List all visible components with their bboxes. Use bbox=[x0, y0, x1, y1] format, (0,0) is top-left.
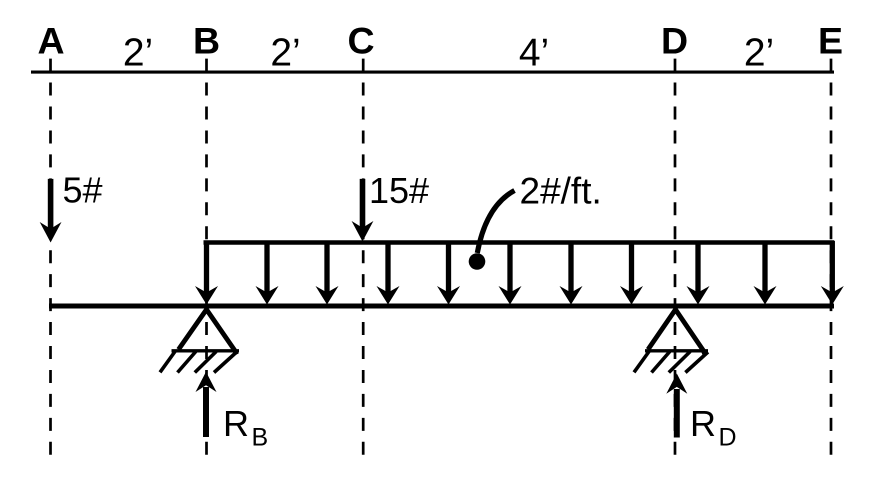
svg-text:4’: 4’ bbox=[519, 32, 549, 75]
distributed load arrow 1 bbox=[195, 241, 218, 305]
distributed load top line bbox=[204, 240, 835, 245]
svg-text:B: B bbox=[193, 20, 220, 62]
node C dashed construction line bbox=[362, 59, 365, 458]
distributed load leader dot bbox=[469, 253, 486, 270]
distributed load arrow 9 bbox=[687, 241, 710, 305]
svg-text:2’: 2’ bbox=[744, 32, 774, 75]
dimension line bbox=[31, 71, 834, 74]
svg-text:2’: 2’ bbox=[270, 32, 300, 75]
distributed load arrow 10 bbox=[754, 241, 777, 305]
node D dashed construction line bbox=[674, 59, 677, 458]
reaction arrow RD bbox=[666, 374, 687, 438]
distributed load arrow 11 bbox=[821, 241, 844, 305]
distributed load leader curve bbox=[477, 191, 514, 254]
svg-text:D: D bbox=[661, 20, 688, 62]
distributed load arrow 8 bbox=[620, 241, 643, 305]
distributed load arrow 2 bbox=[256, 241, 279, 305]
svg-text:C: C bbox=[347, 20, 374, 62]
svg-text:R: R bbox=[223, 403, 249, 444]
svg-text:B: B bbox=[252, 423, 269, 451]
reaction label RD bbox=[690, 403, 737, 451]
reaction arrow RB bbox=[196, 372, 217, 437]
distributed load arrow 7 bbox=[560, 241, 583, 305]
point load 5# arrow at A bbox=[40, 179, 62, 243]
support hatching at B bbox=[160, 352, 237, 373]
beam bbox=[49, 304, 834, 309]
node E dashed construction line bbox=[830, 59, 833, 458]
svg-text:15#: 15# bbox=[369, 170, 429, 211]
distributed load arrow 4 bbox=[377, 241, 400, 305]
svg-text:R: R bbox=[690, 403, 716, 444]
support triangle at D bbox=[645, 310, 708, 355]
svg-text:A: A bbox=[37, 20, 64, 62]
distributed load arrow 5 bbox=[437, 241, 460, 305]
point load 15# arrow at C bbox=[352, 179, 374, 242]
svg-text:D: D bbox=[719, 423, 737, 451]
svg-text:5#: 5# bbox=[63, 170, 103, 211]
node B dashed construction line bbox=[205, 59, 208, 458]
svg-text:2’: 2’ bbox=[123, 32, 153, 75]
support hatching at D bbox=[634, 352, 708, 373]
distributed load arrow 3 bbox=[316, 241, 339, 305]
distributed load arrow 6 bbox=[499, 241, 522, 305]
node A dashed construction line bbox=[49, 59, 52, 458]
reaction label RB bbox=[223, 403, 268, 451]
svg-text:E: E bbox=[818, 20, 843, 62]
svg-text:2#/ft.: 2#/ft. bbox=[520, 171, 602, 212]
support triangle at B bbox=[172, 310, 240, 355]
